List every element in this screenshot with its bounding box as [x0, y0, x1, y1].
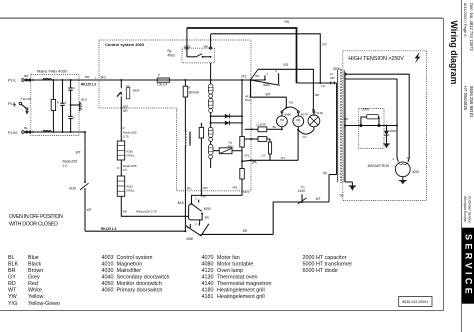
svg-text:4120: 4120 [316, 111, 323, 115]
svg-text:WT: WT [266, 93, 271, 97]
svg-text:4010: 4010 [102, 261, 114, 267]
svg-text:BL: BL [8, 255, 15, 261]
svg-text:Wiring diagram: Wiring diagram [449, 21, 459, 85]
svg-text:Yellow: Yellow [28, 294, 43, 300]
svg-text:Motor fan: Motor fan [217, 255, 240, 261]
magnetron ground [402, 177, 404, 181]
svg-text:5000: 5000 [303, 261, 315, 267]
GY arc bridge bottom [298, 130, 314, 134]
svg-text:Mains Filter 4030: Mains Filter 4030 [37, 69, 68, 74]
svg-text:PL/N: PL/N [8, 130, 17, 135]
svg-text:WP: WP [330, 76, 335, 80]
svg-text:PL/L: PL/L [8, 78, 17, 83]
svg-text:C: C [65, 100, 67, 104]
svg-text:4130: 4130 [202, 275, 214, 281]
svg-text:YW: YW [201, 195, 206, 199]
filter inductor top [43, 79, 51, 80]
lamp component 2 [208, 99, 213, 109]
wire WT to motors [251, 80, 287, 107]
svg-text:WT: WT [316, 197, 321, 201]
filter capacitor C3 [70, 105, 72, 116]
svg-text:Thermostat oven: Thermostat oven [217, 275, 257, 281]
svg-text:Mainsfilter: Mainsfilter [117, 268, 142, 274]
svg-text:TW: TW [339, 193, 344, 197]
svg-text:~: ~ [297, 123, 299, 127]
frame top line [0, 17, 444, 19]
wire N [24, 131, 85, 133]
svg-text:Motor turntable: Motor turntable [217, 261, 253, 267]
filter capacitor C1 [62, 79, 64, 81]
wire RD to lamp [258, 69, 314, 109]
svg-text:Oven lamp: Oven lamp [217, 268, 243, 274]
svg-text:YW-GR: YW-GR [21, 97, 32, 101]
svg-text:WT: WT [8, 288, 17, 294]
svg-text:4070: 4070 [202, 255, 214, 261]
svg-text:~: ~ [281, 123, 283, 127]
svg-text:BLK: BLK [8, 261, 19, 267]
svg-text:F: F [158, 73, 160, 77]
magnetron 4010 [395, 162, 410, 177]
secondary ground [345, 181, 352, 183]
svg-text:Ls: Ls [321, 84, 325, 88]
relay coil [185, 132, 186, 146]
filter capacitor C2 [70, 79, 72, 81]
svg-text:8536 255 99101: 8536 255 99101 [469, 86, 474, 118]
diode D2 [211, 122, 242, 124]
svg-text:4060: 4060 [102, 288, 114, 294]
svg-text:Yellow-Green: Yellow-Green [28, 301, 60, 307]
svg-text:1.5: 1.5 [123, 168, 128, 172]
svg-text:4050: 4050 [204, 207, 211, 211]
primary doorswitch 4060 [185, 225, 201, 235]
resistor col D lower [240, 169, 245, 180]
magnetron filament inside [398, 162, 408, 164]
svg-text:Control system: Control system [117, 255, 153, 261]
svg-text:3P1: 3P1 [187, 186, 193, 190]
svg-text:NF1: NF1 [243, 190, 249, 194]
svg-text:Control system 4003: Control system 4003 [105, 42, 145, 47]
motor bottom stubs [281, 127, 283, 130]
svg-text:Black: Black [28, 261, 41, 267]
svg-text:FA: FA [407, 156, 411, 160]
part number box [399, 297, 432, 307]
SERVICE block [462, 228, 474, 304]
svg-text:4070: 4070 [301, 112, 308, 116]
thermostat magnetron 4140 [301, 194, 303, 202]
svg-text:3F2: 3F2 [100, 76, 106, 80]
frame right line [443, 19, 445, 311]
svg-text:2000: 2000 [303, 255, 315, 261]
HT capacitor 2000 box [359, 109, 384, 149]
svg-text:GY: GY [8, 275, 16, 281]
svg-text:2000: 2000 [362, 108, 369, 112]
svg-text:L1-EXP: L1-EXP [256, 123, 266, 127]
heating element 4181 grill [117, 176, 124, 196]
wire L main [24, 79, 265, 81]
winding component 4 [210, 142, 212, 145]
control system 4003 box [99, 40, 251, 191]
heating element 4180 grill [117, 141, 124, 160]
ground diode [383, 143, 390, 145]
capacitor symbol [360, 124, 362, 126]
svg-text:MAGNETRON: MAGNETRON [368, 164, 390, 168]
svg-text:Grey: Grey [28, 275, 40, 281]
HT diode 6000 [386, 125, 388, 127]
lamp component 1 [208, 84, 213, 94]
svg-text:Heatingelement grill: Heatingelement grill [217, 288, 265, 294]
svg-text:WT: WT [76, 151, 81, 155]
svg-text:4P1: 4P1 [232, 186, 238, 190]
svg-text:F: F [189, 86, 191, 90]
svg-text:T30.C4: T30.C4 [157, 83, 168, 87]
svg-text:4040: 4040 [263, 83, 270, 87]
svg-text:C: C [73, 116, 75, 120]
relay contact subbox [182, 48, 214, 63]
wire BR bottom [201, 233, 273, 235]
svg-text:4180: 4180 [202, 288, 214, 294]
svg-text:SERVICE: SERVICE [463, 234, 473, 297]
svg-text:Red: Red [28, 281, 38, 287]
svg-text:4080: 4080 [202, 261, 214, 267]
svg-text:BLK: BLK [81, 97, 87, 101]
svg-text:GR: GR [123, 109, 128, 113]
wire col C [210, 63, 212, 84]
svg-text:4F2: 4F2 [123, 105, 129, 109]
svg-text:Monitor doorswitch: Monitor doorswitch [117, 281, 162, 287]
svg-text:8/11/2000 / Page 6: 8/11/2000 / Page 6 [463, 3, 468, 37]
svg-text:WT: WT [87, 208, 92, 212]
YW arc bridge [282, 107, 298, 111]
svg-text:4140: 4140 [298, 189, 305, 193]
svg-text:4050: 4050 [102, 281, 114, 287]
mains filter 4030 box [31, 75, 79, 136]
svg-text:RD: RD [8, 281, 16, 287]
svg-text:4080: 4080 [284, 112, 291, 116]
svg-text:6000: 6000 [390, 129, 397, 133]
svg-text:4130: 4130 [69, 186, 76, 190]
svg-text:WH: WH [204, 44, 209, 48]
svg-text:1.0: 1.0 [63, 164, 68, 168]
svg-text:1P2: 1P2 [202, 186, 208, 190]
svg-text:4010: 4010 [412, 170, 419, 174]
sidebar divider [461, 0, 463, 332]
wire bottom left RK125 [85, 230, 185, 232]
svg-text:Ry: Ry [126, 84, 130, 88]
svg-text:Brown: Brown [28, 268, 43, 274]
svg-text:YW: YW [288, 100, 293, 104]
svg-text:HT transformer: HT transformer [316, 261, 352, 267]
svg-text:BLK: BLK [178, 201, 185, 205]
wire BLK down [184, 191, 186, 231]
svg-text:Magnetron: Magnetron [117, 261, 143, 267]
wire N down [84, 131, 86, 133]
svg-text:6000: 6000 [303, 268, 315, 274]
svg-text:White: White [28, 288, 42, 294]
svg-text:Customer Service: Customer Service [468, 196, 472, 223]
svg-text:Blue: Blue [28, 255, 39, 261]
svg-text:4904: 4904 [133, 88, 140, 92]
svg-text:4060: 4060 [186, 237, 193, 241]
svg-text:Secondary doorswitch: Secondary doorswitch [117, 275, 170, 281]
fuse F300mA [184, 79, 186, 81]
resistor col 1P2 [200, 123, 202, 128]
svg-text:Thermostat magnetron: Thermostat magnetron [217, 281, 272, 287]
filament wires [345, 74, 409, 162]
motor turntable 4080 [281, 111, 283, 113]
filter inductor bottom [43, 131, 51, 132]
thermostat oven 4130 [84, 181, 86, 183]
svg-text:WITH DOOR CLOSED: WITH DOOR CLOSED [9, 222, 58, 228]
svg-text:YW: YW [284, 20, 289, 24]
svg-text:Ry: Ry [168, 49, 172, 53]
svg-text:BR: BR [243, 229, 248, 233]
wire NF1 to 4050 [192, 195, 243, 203]
svg-text:C: C [73, 86, 75, 90]
thermal link upper [250, 128, 252, 130]
svg-text:BR: BR [8, 268, 16, 274]
svg-text:BL: BL [24, 126, 28, 130]
svg-text:4181: 4181 [202, 294, 214, 300]
svg-text:Y/G: Y/G [8, 301, 17, 307]
svg-text:4120: 4120 [202, 268, 214, 274]
svg-text:OVEN IN OFF POSITION: OVEN IN OFF POSITION [9, 214, 63, 220]
svg-text:8536 243 29291: 8536 243 29291 [402, 300, 428, 304]
wire GY top [210, 34, 212, 47]
svg-text:Radox155 0.75: Radox155 0.75 [136, 210, 157, 214]
svg-text:4003: 4003 [102, 255, 114, 261]
svg-text:Primary doorswitch: Primary doorswitch [117, 288, 163, 294]
lightning bolt [415, 52, 421, 64]
svg-text:HT diode: HT diode [316, 268, 338, 274]
svg-text:4030: 4030 [102, 268, 114, 274]
resistor col D upper [241, 79, 243, 81]
svg-text:RK125 1.0: RK125 1.0 [81, 82, 96, 86]
svg-text:TM: TM [280, 118, 285, 122]
thermal link lower [250, 138, 252, 140]
svg-text:GY: GY [262, 153, 266, 157]
wire up to 4140 [273, 202, 329, 234]
diode D1 [211, 115, 242, 117]
svg-text:GY: GY [281, 156, 285, 160]
svg-text:FM: FM [296, 118, 301, 122]
svg-text:Dcw: Dcw [245, 98, 252, 102]
svg-text:2F2: 2F2 [241, 75, 247, 79]
svg-text:RD: RD [255, 74, 259, 78]
svg-text:R: R [117, 166, 119, 170]
svg-text:300mA: 300mA [189, 91, 200, 95]
wire YW top (thick) [186, 28, 188, 47]
svg-text:2F1: 2F1 [244, 154, 250, 158]
lamp component 3 [208, 127, 213, 137]
svg-text:Radox155: Radox155 [63, 160, 78, 164]
fuse F T30C4 [157, 78, 169, 82]
svg-text:HT 550/4820: HT 550/4820 [463, 86, 468, 111]
svg-text:Whirlpool Europe: Whirlpool Europe [463, 196, 467, 222]
svg-text:GY: GY [303, 135, 307, 139]
oven lamp 4120 [313, 111, 315, 113]
frame bottom line [0, 310, 444, 312]
svg-text:Doc. No. 4812 724 13673: Doc. No. 4812 724 13673 [469, 3, 474, 51]
svg-text:HT capacitor: HT capacitor [316, 255, 347, 261]
svg-text:0.75: 0.75 [123, 134, 129, 138]
svg-text:4903: 4903 [168, 54, 175, 58]
svg-text:YW: YW [8, 294, 18, 300]
chassis tap BLK [70, 104, 72, 106]
svg-text:4140: 4140 [202, 281, 214, 287]
svg-text:GRILL: GRILL [126, 189, 135, 193]
svg-text:4040: 4040 [102, 275, 114, 281]
small component [269, 139, 271, 142]
filter resistor [52, 79, 54, 81]
svg-text:R: R [123, 126, 125, 130]
wire Ls [297, 82, 337, 84]
svg-text:BL: BL [273, 125, 277, 129]
high tension box [343, 51, 427, 201]
grill return wire [121, 196, 188, 216]
bus GY [250, 159, 252, 161]
motor fan 4070 [297, 111, 299, 113]
svg-text:GRILL: GRILL [126, 154, 135, 158]
primary bottom wire Up [329, 174, 337, 176]
svg-text:R: R [57, 100, 59, 104]
relay Ry4904 contact [120, 79, 122, 81]
svg-text:5000: 5000 [333, 67, 340, 71]
svg-text:RK125 1.5: RK125 1.5 [101, 227, 116, 231]
svg-text:F: F [393, 157, 395, 161]
secondary doorswitch 4040 [250, 79, 252, 81]
svg-text:HIGH TENSION >250V: HIGH TENSION >250V [348, 56, 404, 62]
svg-text:RD: RD [283, 63, 288, 67]
svg-text:Heatingelement grill: Heatingelement grill [217, 294, 265, 300]
svg-text:Up: Up [323, 171, 327, 175]
